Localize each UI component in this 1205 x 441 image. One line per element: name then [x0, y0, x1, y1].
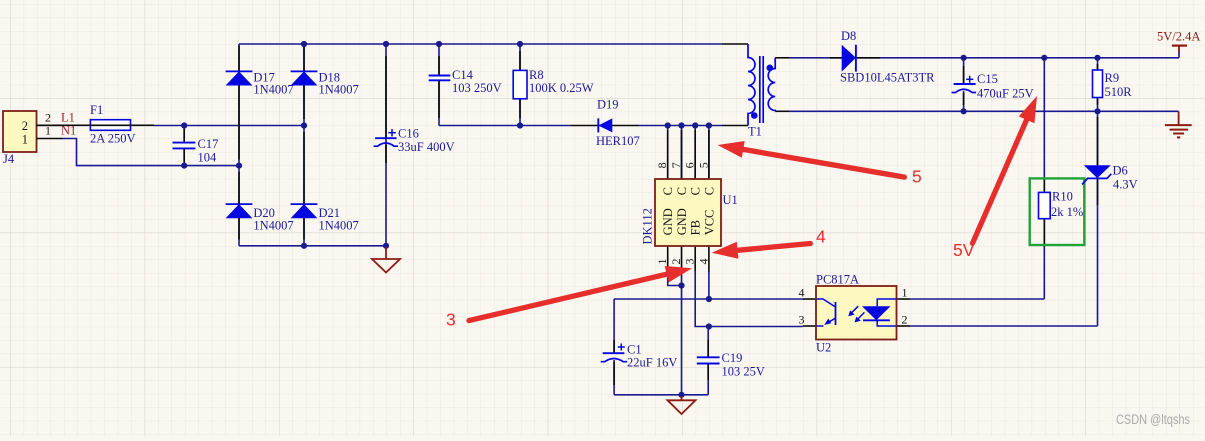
wire snubber/switch rail (C14 bottom through D19 to primary)	[439, 125, 722, 127]
node snubber rail junction at R8 bottom	[517, 122, 523, 128]
node 5V junction at R9	[1094, 55, 1100, 61]
node top rail junction at bridge right column	[301, 41, 307, 47]
svg-text:5V/2.4A: 5V/2.4A	[1157, 30, 1200, 44]
node ground rail junction	[678, 392, 684, 398]
wire bridge right column	[303, 44, 305, 246]
annotation arrow 4	[712, 242, 811, 259]
node N junction at bridge left column	[236, 163, 242, 169]
annotation arrow 3	[469, 266, 692, 321]
svg-text:C16: C16	[398, 127, 419, 141]
svg-text:4: 4	[696, 259, 710, 265]
ground symbol below C16	[372, 247, 400, 273]
power symbol 5V/2.4A	[1157, 30, 1200, 52]
wire bridge left column	[238, 44, 240, 246]
svg-text:HER107: HER107	[596, 134, 640, 148]
svg-text:D8: D8	[841, 29, 856, 43]
capacitor C14	[429, 68, 502, 95]
svg-text:GND: GND	[661, 208, 675, 235]
diode D18 1N4007	[291, 70, 359, 96]
wire ground rail under DK112	[614, 394, 708, 396]
wire N net (J4 pin1 down and right to bridge)	[63, 139, 239, 166]
diode D20 1N4007	[226, 204, 294, 232]
svg-text:C19: C19	[722, 351, 743, 365]
svg-text:R10: R10	[1052, 189, 1073, 203]
svg-text:470uF 25V: 470uF 25V	[977, 86, 1034, 100]
svg-text:SBD10L45AT3TR: SBD10L45AT3TR	[840, 71, 935, 85]
node L junction at C17 top	[181, 122, 187, 128]
svg-text:C: C	[675, 187, 689, 195]
node top rail junction at C16	[383, 41, 389, 47]
svg-text:5: 5	[912, 167, 922, 187]
wire 0V bottom rail (secondary bottom to ground)	[789, 110, 1179, 112]
svg-text:4: 4	[799, 286, 805, 300]
node switch rail junction pin7	[678, 122, 684, 128]
wire C16 branch	[385, 44, 387, 246]
resistor R8	[513, 68, 594, 99]
svg-text:104: 104	[198, 151, 218, 165]
svg-text:1: 1	[655, 259, 669, 265]
wire DC+ top rail (bridge to transformer primary)	[239, 43, 722, 45]
svg-text:2: 2	[22, 119, 28, 133]
wire 5V top rail (secondary top to power symbol)	[789, 51, 1179, 58]
svg-text:3: 3	[683, 259, 697, 265]
resistor R10 in green highlight box	[1030, 178, 1085, 245]
wire FB net (U1 pin3 to U2 pin3)	[695, 271, 802, 327]
wire U1 pin1 to pin2 (GND tie)	[668, 271, 682, 286]
op chip U1 DK112	[641, 126, 738, 273]
transformer T1	[722, 44, 789, 139]
svg-text:J4: J4	[3, 152, 15, 166]
wire DC- bottom rail	[239, 245, 386, 247]
svg-text:100K 0.25W: 100K 0.25W	[529, 81, 594, 95]
node switch rail junction pin6	[692, 122, 698, 128]
svg-text:4: 4	[816, 227, 826, 247]
svg-text:5: 5	[696, 162, 710, 168]
svg-text:4.3V: 4.3V	[1113, 177, 1138, 191]
capacitor C17	[173, 129, 219, 165]
node L junction at bridge right column	[301, 122, 307, 128]
node switch rail junction pin5	[706, 122, 712, 128]
svg-text:8: 8	[655, 162, 669, 168]
svg-text:R9: R9	[1105, 71, 1120, 85]
wire L net (J4 pin2 to fuse to bridge)	[154, 126, 304, 143]
annotation label 4	[816, 227, 826, 247]
ground symbol below DK112	[668, 396, 696, 414]
svg-text:C17: C17	[198, 137, 219, 151]
svg-text:5V: 5V	[953, 240, 975, 260]
node top rail junction at R8	[517, 41, 523, 47]
diode D21 1N4007	[291, 204, 359, 232]
svg-text:7: 7	[669, 162, 683, 168]
node FB junction at C19	[706, 323, 712, 329]
annotation label 5V	[953, 240, 975, 260]
svg-text:F1: F1	[90, 103, 103, 117]
optocoupler U2 PC817A	[799, 273, 911, 355]
svg-text:DK112: DK112	[641, 208, 655, 244]
svg-text:1N4007: 1N4007	[319, 218, 359, 232]
wire R10 branch (5V rail down to R10 and U2 pin1)	[910, 58, 1044, 299]
fuse F1	[37, 103, 155, 146]
svg-text:C: C	[661, 187, 675, 195]
annotation label 3	[446, 310, 456, 330]
svg-text:GND: GND	[675, 208, 689, 235]
node 0V junction at C15 bottom	[961, 108, 967, 114]
svg-text:33uF 400V: 33uF 400V	[398, 140, 455, 154]
svg-text:2: 2	[669, 259, 683, 265]
capacitor C19	[697, 327, 765, 395]
svg-text:1N4007: 1N4007	[319, 83, 359, 97]
svg-text:C14: C14	[452, 68, 474, 82]
svg-text:FB: FB	[689, 220, 703, 235]
diode D19 HER107	[571, 98, 640, 148]
wire R8 branch	[519, 44, 521, 126]
node N junction at C17 bottom	[181, 163, 187, 169]
node 5V junction at R10 branch	[1041, 55, 1047, 61]
node VCC junction at U1 pin4	[706, 296, 712, 302]
svg-text:C: C	[689, 187, 703, 195]
net label N1	[61, 124, 76, 138]
diode D8 SBD10L45AT3TR	[830, 29, 935, 85]
svg-text:103 25V: 103 25V	[722, 365, 765, 379]
svg-text:3: 3	[799, 313, 805, 327]
connector J4	[3, 110, 63, 166]
net label L1	[61, 110, 75, 124]
svg-text:1: 1	[902, 286, 908, 300]
svg-text:D6: D6	[1113, 163, 1128, 177]
svg-text:2A 250V: 2A 250V	[90, 132, 136, 146]
wire VCC net (C1 top, U1 pin4, U2 pin4)	[614, 271, 803, 299]
svg-text:CSDN @ltqshs: CSDN @ltqshs	[1116, 412, 1190, 427]
annotation arrow 5	[718, 141, 905, 177]
svg-text:PC817A: PC817A	[816, 273, 859, 287]
node DC- junction at C16 / ground	[383, 243, 389, 249]
annotation arrow 5V	[973, 96, 1038, 243]
node 5V junction at C15	[961, 55, 967, 61]
node DC- junction at bridge right column	[301, 243, 307, 249]
capacitor C15 electrolytic	[952, 58, 1034, 112]
svg-text:6: 6	[683, 162, 697, 168]
svg-text:1N4007: 1N4007	[253, 218, 293, 232]
svg-text:2k 1%: 2k 1%	[1051, 205, 1083, 219]
power ground symbol right	[1165, 111, 1192, 137]
node top rail junction at C14	[436, 41, 442, 47]
node junction pin1/pin2	[678, 282, 684, 288]
svg-text:L1: L1	[61, 110, 75, 124]
svg-text:C15: C15	[977, 72, 998, 86]
capacitor C1 electrolytic	[601, 299, 678, 395]
svg-text:2: 2	[45, 110, 51, 124]
capacitor C16 electrolytic	[374, 127, 455, 154]
svg-text:D19: D19	[597, 98, 619, 112]
svg-text:103 250V: 103 250V	[452, 81, 502, 95]
svg-text:22uF 16V: 22uF 16V	[627, 355, 677, 369]
diode D17 1N4007	[226, 70, 294, 96]
zener diode D6 4.3V	[910, 111, 1137, 326]
node switch rail junction pin8	[665, 122, 671, 128]
wire C14 branch	[438, 44, 440, 126]
svg-text:1N4007: 1N4007	[253, 83, 293, 97]
wire GND column (U1 pin2 to ground rail)	[681, 271, 683, 395]
svg-text:3: 3	[446, 310, 456, 330]
watermark CSDN	[1116, 412, 1190, 427]
svg-text:1: 1	[22, 132, 28, 146]
svg-text:C: C	[702, 187, 716, 195]
svg-text:U1: U1	[723, 193, 738, 207]
node 0V junction at R9 bottom / D6	[1094, 108, 1100, 114]
resistor R9	[1093, 58, 1133, 112]
svg-text:VCC: VCC	[702, 210, 716, 236]
svg-text:2: 2	[902, 313, 908, 327]
svg-text:U2: U2	[816, 341, 831, 355]
annotation label 5	[912, 167, 922, 187]
svg-text:T1: T1	[748, 125, 762, 139]
svg-text:510R: 510R	[1105, 85, 1133, 99]
